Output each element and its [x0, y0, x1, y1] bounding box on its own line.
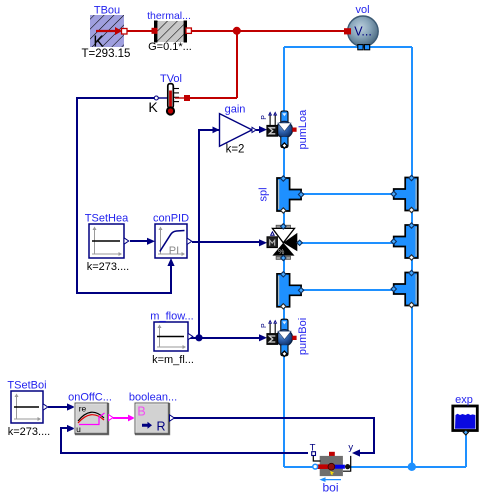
pump pumBoi: [261, 319, 297, 356]
svg-text:m_flow...: m_flow...: [150, 311, 193, 323]
svg-text:gain: gain: [225, 104, 246, 116]
svg-text:boi: boi: [322, 481, 338, 495]
wire thermal.port_b to vol.heatPort with junction: [189, 30, 345, 32]
wire boi.port_b to junction to exp: [348, 466, 466, 468]
wire m_flow.y branch up to gain.u: [199, 130, 219, 338]
wire m_flow.y to pumBoi.m_flow_in: [189, 337, 260, 339]
wire TBou.port to thermal.port_a: [124, 30, 154, 32]
block gain (triangle): [220, 114, 257, 147]
controller onOffCon (on/off): [75, 403, 113, 434]
controller conPID (PI): [155, 224, 192, 258]
svg-text:k=273....: k=273....: [87, 261, 130, 273]
svg-text:k=m_fl...: k=m_fl...: [152, 354, 194, 366]
svg-text:TVol: TVol: [160, 73, 182, 85]
label boi with flow arrow: [322, 479, 341, 481]
svg-text:pumLoa: pumLoa: [297, 109, 309, 150]
svg-text:P: P: [261, 115, 268, 120]
wire left riser x=283.5: [283, 47, 285, 113]
svg-text:R: R: [156, 420, 165, 434]
wire pumBoi outlet to boi.port_a: [284, 466, 313, 468]
wire tee row3 left-right: [301, 289, 394, 291]
node m_flow junction: [195, 334, 202, 341]
node fluid junction: [408, 463, 416, 471]
source m_flow (constant): [154, 322, 193, 351]
wire right riser x=411.5: [411, 47, 413, 179]
svg-text:G=0.1*...: G=0.1*...: [148, 41, 192, 53]
wire booleanToReal.y to boi.y: [174, 418, 374, 453]
source TSetBoi (constant): [11, 391, 48, 423]
svg-text:PI: PI: [169, 245, 179, 257]
wire vol.ports to left and right risers: [284, 46, 412, 48]
junction right tee row3: [391, 270, 418, 307]
svg-text:exp: exp: [455, 394, 473, 406]
wire onOffCon.y to booleanToReal.u (magenta): [113, 417, 128, 419]
boiler boi: [312, 452, 351, 476]
vessel exp (expansion): [453, 406, 478, 435]
wire gain.y to pumLoa.m_flow_in: [256, 129, 260, 131]
svg-text:u: u: [76, 424, 81, 434]
svg-text:thermal...: thermal...: [147, 10, 191, 22]
svg-text:T: T: [310, 443, 316, 454]
svg-text:V...: V...: [354, 25, 372, 39]
component vol (mixing volume sphere): [344, 16, 378, 50]
svg-text:pumBoi: pumBoi: [297, 318, 309, 355]
svg-text:boolean...: boolean...: [129, 392, 177, 404]
svg-text:K: K: [148, 99, 158, 115]
wire boi.T to onOffCon.u: [61, 428, 308, 453]
junction left tee row3: [277, 272, 304, 309]
svg-text:TBou: TBou: [94, 5, 120, 17]
svg-text:spl: spl: [258, 187, 270, 201]
valve val (three-way): [267, 224, 302, 261]
svg-text:onOffC...: onOffC...: [68, 392, 112, 404]
svg-text:TSetBoi: TSetBoi: [7, 380, 46, 392]
junction right tee row2: [391, 223, 418, 260]
svg-text:k=273....: k=273....: [8, 426, 51, 438]
svg-text:y: y: [348, 442, 353, 453]
pump pumLoa: [261, 111, 297, 148]
wire TSetBoi.y to onOffCon.reference: [48, 406, 68, 408]
svg-text:k=2: k=2: [226, 144, 245, 156]
node red junction: [233, 27, 241, 35]
sensor TVol (thermometer): [154, 84, 190, 115]
junction right tee row1: [391, 175, 418, 212]
svg-text:TSetHea: TSetHea: [85, 213, 129, 225]
wire TVol.T to conPID.u_m: [77, 98, 171, 293]
svg-text:P: P: [261, 323, 268, 328]
svg-text:T=293.15: T=293.15: [82, 48, 131, 60]
block TBou (fixed temperature boundary): [90, 15, 127, 51]
component thermal (thermal conductor G): [152, 21, 192, 43]
svg-text:vol: vol: [355, 4, 369, 16]
source TSetHea (constant): [89, 224, 129, 258]
svg-text:re: re: [79, 404, 87, 414]
wire spl to right tee row1: [301, 193, 394, 195]
converter booleanToReal: [135, 403, 174, 434]
wire conPID.y to val.y: [192, 241, 260, 243]
wire val.port_2 to right tee row2: [300, 242, 394, 244]
wire TSetHea.y to conPID.u_s: [130, 240, 148, 242]
junction spl (left tee row1): [277, 176, 304, 213]
svg-text:conPID: conPID: [153, 213, 189, 225]
wire junction down to TVol.port: [236, 31, 238, 98]
svg-text:B: B: [137, 405, 145, 419]
